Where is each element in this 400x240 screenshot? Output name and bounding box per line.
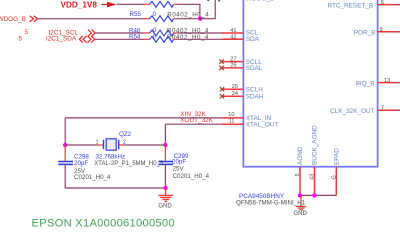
svg-text:WDOG_B: WDOG_B <box>246 0 274 3</box>
svg-text:2: 2 <box>123 140 126 146</box>
svg-text:11: 11 <box>229 119 235 125</box>
wire XTAL_IN net <box>65 118 222 145</box>
svg-text:I2C1_SDA: I2C1_SDA <box>46 35 77 42</box>
wire I2C1_SDA to R54 <box>95 38 150 40</box>
pin 43 BUCK_AGND (bottom) <box>310 125 319 196</box>
svg-text:GND: GND <box>294 211 308 217</box>
svg-text:VDD_1V8: VDD_1V8 <box>61 0 98 9</box>
svg-text:5: 5 <box>25 29 29 36</box>
svg-text:POR_B: POR_B <box>354 30 376 37</box>
svg-text:20pF: 20pF <box>74 160 88 167</box>
pin 5 AGND (bottom) <box>295 146 304 195</box>
wire R55 to junction and up to pin (cut at top) <box>174 0 216 19</box>
pin 7 CLK_32K_OUT <box>330 105 400 115</box>
wire R48 to pin 41 <box>174 32 223 34</box>
capacitor C299 <box>158 145 209 180</box>
off-page connector I2C1_SCL <box>49 29 96 36</box>
ground IC GND <box>294 195 308 217</box>
pin 13 IRQ_B <box>355 78 400 88</box>
svg-text:SCLH: SCLH <box>246 86 263 93</box>
resistor R56 (labels cut off at top) <box>150 1 174 7</box>
pin 25 SCLH no-connect <box>220 84 263 93</box>
svg-text:7: 7 <box>381 105 384 111</box>
title EPSON X1A000061000500 <box>32 218 175 230</box>
node junction VDD/WDOG net <box>198 16 202 20</box>
svg-text:24: 24 <box>232 91 238 97</box>
ground crystal GND <box>158 188 173 210</box>
svg-text:9: 9 <box>380 27 383 33</box>
pin 24 SDAH no-connect <box>220 91 264 100</box>
node junction crystal left <box>63 143 67 147</box>
wire XTAL_OUT net <box>165 124 222 145</box>
svg-text:6: 6 <box>381 0 384 6</box>
svg-text:RTC_RESET_B: RTC_RESET_B <box>327 3 373 10</box>
page ref 5 (SDA) <box>19 35 23 42</box>
wire cap bottoms to ground rail <box>65 164 165 188</box>
op-amp U1 PCA9450BHNY IC body <box>243 0 377 167</box>
pin number fragments cut at top edge <box>207 0 220 1</box>
pin G EPAD (bottom) <box>331 148 340 196</box>
node junction BUCK_AGND rail <box>312 193 316 197</box>
svg-text:13: 13 <box>384 78 390 84</box>
svg-text:QFN56-7MM-G-MINI_H1: QFN56-7MM-G-MINI_H1 <box>236 200 306 207</box>
svg-text:10: 10 <box>228 112 234 118</box>
crystal QZ2 <box>96 131 132 150</box>
off-page connector WDOG_B <box>0 16 38 23</box>
svg-text:27: 27 <box>230 56 236 62</box>
power VDD_1V8 <box>61 0 117 9</box>
pin 9 POR_B <box>354 27 400 37</box>
node junction crystal right <box>163 143 167 147</box>
capacitor C298 <box>58 145 111 181</box>
wire I2C1_SCL to R48 <box>95 32 150 34</box>
svg-text:G: G <box>331 175 337 179</box>
svg-text:BUCK_AGND: BUCK_AGND <box>312 125 319 165</box>
pin 42 SDA <box>222 34 260 43</box>
node junction ground rail <box>163 186 167 190</box>
svg-text:41: 41 <box>230 28 236 34</box>
svg-text:42: 42 <box>230 34 236 40</box>
IC part number PCA9450BHNY <box>239 193 285 200</box>
wire VDD_1V8 to resistor <box>117 3 150 5</box>
svg-text:R54: R54 <box>129 34 141 41</box>
off-page connector I2C1_SDA <box>46 35 95 42</box>
svg-text:EPSON X1A000061000500: EPSON X1A000061000500 <box>32 218 175 230</box>
svg-text:SDA: SDA <box>246 36 260 43</box>
svg-text:C0201_H0_4: C0201_H0_4 <box>173 173 210 180</box>
node junction AGND rail <box>298 193 302 197</box>
pin 11 XTAL_OUT <box>222 119 279 129</box>
svg-text:SDAL: SDAL <box>246 65 263 72</box>
wire crystal row <box>65 144 165 146</box>
pin 41 SCL <box>222 28 259 37</box>
pin 10 XTAL_IN <box>222 112 272 122</box>
pin 6 RTC_RESET_B <box>327 0 400 10</box>
svg-text:C0201_H0_4: C0201_H0_4 <box>74 174 111 181</box>
wire resistor to corner down to junction <box>174 4 200 18</box>
resistor R55 <box>130 11 210 22</box>
pin WDOG_B name (clipped at top edge) <box>246 0 274 3</box>
pin 27 SCLL no-connect <box>219 56 262 65</box>
IC footprint QFN56-7MM-G-MINI_H1 <box>236 200 306 207</box>
svg-text:5: 5 <box>19 35 23 42</box>
net label XIN_32K <box>180 111 206 118</box>
svg-text:5: 5 <box>295 173 301 176</box>
svg-text:XTAL-2P_P1_5MM_H0_5: XTAL-2P_P1_5MM_H0_5 <box>94 161 164 167</box>
svg-text:IRQ_B: IRQ_B <box>355 81 374 88</box>
svg-text:SDAH: SDAH <box>246 93 264 100</box>
resistor R48 <box>129 27 209 36</box>
svg-text:EPAD: EPAD <box>333 148 340 165</box>
svg-text:WDOG_B: WDOG_B <box>0 16 26 23</box>
svg-text:GND: GND <box>158 204 172 210</box>
svg-text:R0402_H0_4: R0402_H0_4 <box>167 11 209 18</box>
svg-text:QZ2: QZ2 <box>119 131 132 138</box>
svg-text:26: 26 <box>230 63 236 69</box>
svg-text:20pF: 20pF <box>172 159 186 166</box>
svg-text:CLK_32K_OUT: CLK_32K_OUT <box>330 108 374 115</box>
net label XOUT_32K <box>180 117 213 124</box>
wire WDOG_B to R55 <box>38 18 150 20</box>
svg-text:25V: 25V <box>173 166 185 173</box>
svg-text:R55: R55 <box>130 11 142 18</box>
svg-text:25: 25 <box>232 84 238 90</box>
svg-text:32.768kHz: 32.768kHz <box>96 154 126 161</box>
svg-text:43: 43 <box>310 174 316 180</box>
svg-text:XTAL_OUT: XTAL_OUT <box>246 122 279 129</box>
wire bottom ground rail <box>300 194 336 196</box>
svg-text:1: 1 <box>96 140 99 146</box>
crystal value 32.768kHz <box>94 154 164 167</box>
svg-text:AGND: AGND <box>297 146 304 165</box>
pin 26 SDAL no-connect <box>219 63 263 72</box>
page ref 5 (SCL) <box>25 29 29 36</box>
wire R54 to pin 42 <box>174 38 223 40</box>
resistor R54 <box>129 34 209 43</box>
